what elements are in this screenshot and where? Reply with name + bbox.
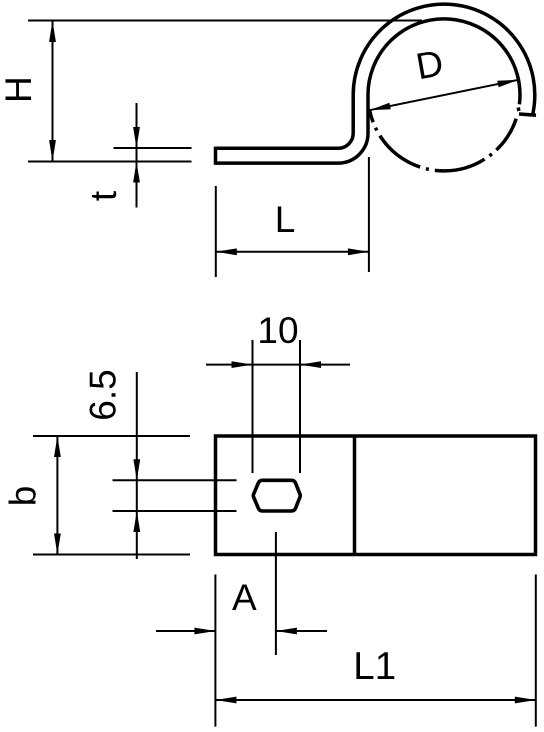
dimension H: upper arrowhead [49,21,56,43]
dimension t: dimension line [136,103,138,208]
side view: centerline dot near strip end [516,108,520,112]
svg-text:H: H [0,76,39,103]
side view: strip right end cap [519,114,536,115]
side view: clip strip lower/outer outline (flat bottom line, outer bend, right vertical edge) [216,96,369,163]
dimension 10: right arrowhead [300,361,321,368]
svg-text:10: 10 [257,310,298,351]
dimension A: left dimension line [156,630,215,632]
dimension D: lower-left arrowhead [370,103,391,111]
dimension D: diameter line across tube [370,80,519,110]
svg-text:A: A [232,577,257,618]
dimension D: upper-right arrowhead [497,80,518,88]
side view: inner circle solid arc (clamped tube, solid part) [368,19,520,104]
dimension 6.5: upper extension line (slot top) [113,479,237,481]
top view: clamp body rectangle [216,436,536,555]
top view: bend edge divider line [353,436,357,555]
dimension b: lower extension line [33,554,190,556]
dimension t: lower arrowhead [133,162,140,183]
side view: clip strip upper/inner outline (flat top line, inner bend, left vertical edge, outer wrap arc) [216,4,535,148]
dimension 10: right extension line [299,340,301,473]
dimension H: bottom extension line [28,161,192,163]
dimension L: right extension line [368,157,370,272]
dimension L: left extension line [215,186,217,277]
dimension L1: right extension line [535,575,537,727]
svg-text:t: t [83,190,124,201]
dimension A: slot-center extension line [275,532,277,655]
dimension 6.5: dimension line [136,372,138,559]
side view: inner circle dash-dot centerline arc (bottom of tube) [370,111,517,171]
svg-text:L1: L1 [353,645,396,688]
dimension L1: right arrowhead [515,697,536,704]
dimension L1: left extension line [214,575,216,727]
dimension H: top extension line [28,20,422,22]
dimension L1: dimension line [215,699,535,701]
dimension D: label [413,42,446,87]
dimension 6.5: lower arrowhead [133,511,140,532]
dimension L: left arrowhead [216,248,237,255]
dimension t: upper extension line [114,147,192,149]
dimension 10: left arrowhead [232,361,253,368]
dimension 6.5: upper arrowhead [133,459,140,480]
top view: mounting slot [253,480,300,511]
svg-text:b: b [2,486,43,507]
dimension A: left arrowhead [194,628,215,635]
dimension b: upper extension line [33,435,190,437]
dimension 10: left extension line [252,340,254,473]
dimension 6.5: lower extension line (slot bottom) [113,510,237,512]
svg-text:L: L [275,199,296,240]
dimension L1: left arrowhead [215,697,236,704]
dimension b: dimension line [56,436,58,555]
dimension H: dimension line [52,21,54,162]
dimension b: lower arrowhead [54,534,61,555]
dimension t: upper arrowhead [133,127,140,148]
dimension b: upper arrowhead [54,436,61,457]
svg-text:6.5: 6.5 [83,369,124,420]
dimension L: dimension line [216,251,369,253]
dimension A: right dimension line [276,630,327,632]
side view: strip left end cap [214,147,218,165]
dimension L: right arrowhead [348,248,369,255]
dimension H: lower arrowhead [49,140,56,162]
dimension 10: dimension line [206,364,350,366]
dimension A: right arrowhead [276,628,297,635]
